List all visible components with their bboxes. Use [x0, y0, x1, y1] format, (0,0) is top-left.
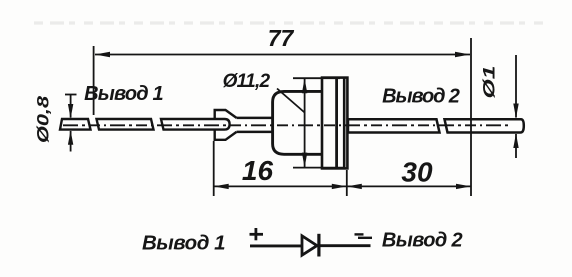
dimension 16 and 30 line [214, 185, 471, 187]
schematic: plus sign [250, 228, 264, 240]
svg-text:30: 30 [401, 157, 433, 188]
diode body (rounded case) [273, 91, 322, 154]
dimension 77 arrowheads [95, 52, 110, 57]
schematic: cathode wire [320, 244, 371, 247]
dimension 16 arrowheads [214, 184, 229, 189]
svg-text:Ø1: Ø1 [480, 66, 499, 99]
dimension D1: lower arrow [515, 134, 517, 158]
left lead segment 3 (enters crimp) [161, 119, 230, 130]
flange inner line 1 [335, 78, 338, 169]
dimension D11.2 leader line [277, 89, 305, 113]
dimension 16: extension line left (crimp face) [213, 141, 215, 196]
dimension 16/30: extension line middle (flange face) [346, 170, 348, 196]
left lead segment 2 [97, 119, 154, 130]
dimension 77: extension line left [93, 46, 95, 115]
svg-text:77: 77 [268, 25, 295, 51]
dimension D0.8: lower arrow [70, 131, 72, 152]
dimension 77/30: extension line right [470, 38, 472, 196]
schematic: diode VD triangle [302, 236, 317, 255]
svg-text:Вывод 2: Вывод 2 [382, 230, 463, 252]
svg-text:Вывод 1: Вывод 1 [142, 232, 225, 255]
svg-text:Ø0,8: Ø0,8 [34, 95, 53, 143]
left lead segment 1 (tip) [60, 119, 91, 130]
dimension D11.2: extension line top [293, 77, 340, 79]
dimension D11.2: extension line bottom [293, 167, 344, 169]
right lead segment 1 [348, 119, 440, 132]
flange inner line 2 [343, 78, 346, 169]
schematic: anode wire [250, 244, 302, 247]
svg-text:Вывод 1: Вывод 1 [84, 83, 163, 105]
schematic: diode cathode bar [317, 234, 320, 257]
mounting flange / end disc [322, 78, 347, 169]
schematic: minus sign [355, 233, 364, 235]
svg-text:Вывод 2: Вывод 2 [382, 86, 460, 108]
dimension D11.2 arrowheads [302, 78, 307, 93]
svg-text:16: 16 [242, 155, 274, 186]
centre axis line (dash-dot) [63, 124, 512, 126]
dimension D11.2 vertical line [304, 78, 306, 167]
svg-text:Ø11,2: Ø11,2 [223, 71, 271, 92]
dimension D0.8: upper arrow [70, 95, 72, 118]
scan artifact gray band [34, 21, 545, 24]
dimension 30 arrowheads [347, 184, 362, 189]
lead crimp cup [215, 110, 237, 140]
stem tube between crimp and body [235, 118, 276, 132]
right lead segment 2 (tip) [445, 119, 524, 132]
dimension 77 line [95, 54, 470, 56]
dimension D1: upper arrow [515, 55, 517, 118]
